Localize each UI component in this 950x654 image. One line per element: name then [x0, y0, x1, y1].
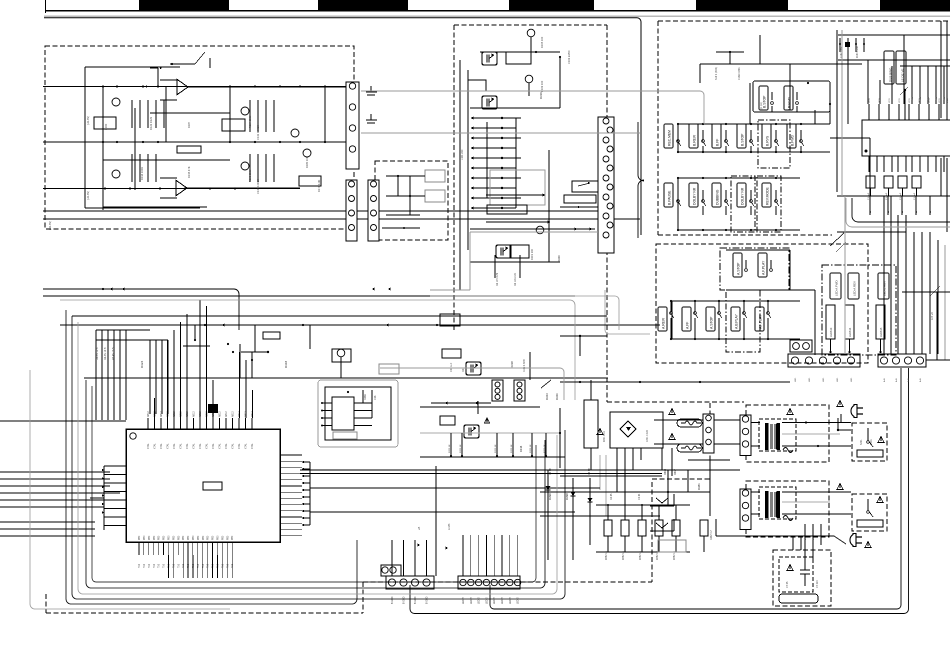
svg-text:B-GND: B-GND: [415, 596, 417, 604]
svg-text:LED B: LED B: [518, 597, 520, 604]
svg-text:C168 4.99K: C168 4.99K: [738, 67, 741, 80]
svg-text:PB0: PB0: [227, 535, 229, 540]
svg-text:TX0: TX0: [218, 563, 220, 568]
svg-text:Q1 (11): Q1 (11): [760, 102, 763, 110]
svg-text:D318: D318: [510, 361, 514, 368]
svg-text:(-21.6V): (-21.6V): [49, 221, 52, 230]
svg-text:TX0: TX0: [139, 563, 141, 568]
svg-text:AB12: AB12: [232, 411, 235, 417]
svg-text:TX0: TX0: [169, 563, 171, 568]
svg-text:B.STOP: B.STOP: [741, 133, 745, 146]
svg-text:R109 100: R109 100: [540, 80, 544, 92]
svg-text:A.B.PLAY: A.B.PLAY: [735, 313, 739, 329]
svg-text:PB0: PB0: [173, 535, 175, 540]
svg-text:AB12: AB12: [173, 411, 176, 417]
svg-text:TX0: TX0: [198, 563, 200, 568]
svg-text:XTAL: XTAL: [225, 443, 228, 449]
svg-text:R134 100K: R134 100K: [140, 167, 144, 180]
svg-text:D381: D381: [697, 483, 701, 490]
svg-text:B-GND: B-GND: [404, 596, 406, 604]
svg-text:R122 R123: R122 R123: [149, 116, 153, 130]
svg-text:LED B: LED B: [479, 597, 481, 604]
svg-text:AB12: AB12: [199, 411, 202, 417]
svg-text:R320 1K: R320 1K: [495, 444, 497, 453]
svg-text:PB0: PB0: [164, 535, 166, 540]
svg-text:A.MS: A.MS: [447, 523, 451, 530]
svg-text:LED613: LED613: [829, 327, 833, 337]
svg-text:REC.MEM: REC.MEM: [668, 130, 672, 146]
svg-text:R6 AN 10 B: R6 AN 10 B: [96, 347, 99, 360]
svg-text:VCO: VCO: [899, 98, 901, 103]
svg-text:TX0: TX0: [222, 563, 224, 568]
svg-text:R187: R187: [187, 121, 191, 128]
svg-text:PB0: PB0: [159, 535, 161, 540]
svg-text:LED: LED: [851, 377, 853, 382]
svg-text:TX0: TX0: [178, 563, 180, 568]
svg-text:R320 1K: R320 1K: [460, 444, 462, 453]
svg-text:A.REW: A.REW: [662, 317, 666, 329]
svg-text:D323: D323: [545, 393, 549, 400]
svg-text:C160: C160: [104, 123, 108, 130]
svg-text:D301 4.7A: D301 4.7A: [603, 431, 606, 442]
svg-text:VCO: VCO: [889, 98, 891, 103]
svg-text:R320 1K: R320 1K: [449, 444, 451, 453]
svg-text:C167 10uF: C167 10uF: [841, 46, 843, 58]
svg-text:R6 174 0.76: R6 174 0.76: [496, 272, 499, 286]
svg-text:LED A.REV: LED A.REV: [853, 281, 857, 296]
svg-text:PB0: PB0: [232, 535, 234, 540]
svg-text:S401: S401: [860, 439, 863, 445]
svg-text:XTAL: XTAL: [180, 443, 183, 449]
svg-text:TX0: TX0: [227, 563, 229, 568]
svg-text:C7 05: C7 05: [786, 581, 789, 588]
svg-text:LED: LED: [809, 377, 811, 382]
svg-text:R105 100: R105 100: [540, 36, 544, 48]
svg-text:AB12: AB12: [219, 411, 222, 417]
svg-text:LED B: LED B: [486, 597, 488, 604]
svg-text:LED B: LED B: [471, 597, 473, 604]
svg-text:B.RVS: B.RVS: [766, 135, 770, 146]
svg-text:R3 85: R3 85: [610, 493, 613, 500]
svg-text:R135 47K: R135 47K: [187, 166, 191, 178]
svg-text:TX0: TX0: [208, 563, 210, 568]
svg-text:PB0: PB0: [178, 535, 180, 540]
svg-text:A.FF: A.FF: [686, 322, 690, 329]
svg-text:R387 4.7: R387 4.7: [710, 530, 713, 540]
svg-text:PB0: PB0: [188, 535, 190, 540]
svg-text:R180 10K: R180 10K: [305, 156, 309, 168]
svg-text:R6 AN 10 B: R6 AN 10 B: [112, 347, 115, 360]
svg-text:PB0: PB0: [213, 535, 215, 540]
svg-text:XTAL: XTAL: [232, 443, 235, 449]
svg-text:B.FWD: B.FWD: [791, 135, 795, 146]
svg-text:D318: D318: [284, 360, 288, 368]
svg-text:XTAL: XTAL: [245, 443, 248, 449]
svg-text:LED615: LED615: [879, 327, 883, 337]
svg-text:A.B: A.B: [883, 378, 886, 382]
svg-text:TX0: TX0: [193, 563, 195, 568]
svg-text:XTAL: XTAL: [147, 443, 150, 449]
svg-text:XTAL: XTAL: [212, 443, 215, 449]
svg-text:A.STOP: A.STOP: [737, 262, 741, 275]
svg-text:PB0: PB0: [208, 535, 210, 540]
svg-text:R.05 0.72W: R.05 0.72W: [523, 359, 526, 372]
svg-text:LED B: LED B: [494, 597, 496, 604]
svg-text:C401: C401: [870, 439, 873, 445]
svg-text:AB12: AB12: [180, 411, 183, 417]
svg-text:LE DE VE: LE DE VE: [901, 68, 905, 82]
svg-text:D319: D319: [539, 92, 543, 99]
svg-text:XTAL: XTAL: [173, 443, 176, 449]
svg-text:XTAL: XTAL: [193, 443, 196, 449]
svg-text:XTAL: XTAL: [206, 443, 209, 449]
svg-text:C141 0.0056: C141 0.0056: [256, 125, 260, 140]
svg-text:A.B: A.B: [919, 378, 922, 382]
svg-text:C7 224: C7 224: [816, 580, 819, 588]
svg-text:A.B +B: A.B +B: [931, 312, 934, 320]
svg-text:D324: D324: [140, 360, 144, 368]
svg-text:+B: +B: [417, 526, 421, 530]
svg-text:(-21.6V): (-21.6V): [87, 116, 90, 125]
svg-text:R320 1K: R320 1K: [530, 444, 532, 453]
svg-text:VCO: VCO: [909, 98, 911, 103]
svg-text:TX0: TX0: [213, 563, 215, 568]
svg-text:(-21.6V): (-21.6V): [87, 191, 90, 200]
svg-text:D326: D326: [555, 393, 559, 400]
svg-text:A.F.PLAY: A.F.PLAY: [762, 260, 766, 275]
svg-text:AB12: AB12: [186, 411, 189, 417]
svg-text:R6 AN 10 B: R6 AN 10 B: [104, 347, 107, 360]
svg-text:LED B: LED B: [463, 597, 465, 604]
svg-text:R119 100: R119 100: [530, 248, 534, 260]
svg-text:R6 116 2.2K: R6 116 2.2K: [514, 272, 517, 286]
svg-text:AB12: AB12: [160, 411, 163, 417]
svg-text:VCO: VCO: [947, 98, 949, 103]
svg-text:R184 1186: R184 1186: [248, 115, 252, 128]
svg-text:LED B: LED B: [510, 597, 512, 604]
svg-text:LED614: LED614: [848, 327, 852, 337]
svg-text:PB0: PB0: [169, 535, 171, 540]
svg-text:D316: D316: [519, 445, 523, 452]
svg-text:TX0: TX0: [232, 563, 234, 568]
svg-text:B.STOP: B.STOP: [763, 95, 767, 108]
svg-text:TX0: TX0: [173, 563, 175, 568]
svg-text:PB0: PB0: [218, 535, 220, 540]
svg-text:LED: LED: [795, 377, 797, 382]
svg-text:TX0: TX0: [203, 563, 205, 568]
svg-text:B.PAUSE: B.PAUSE: [668, 190, 672, 205]
svg-text:DUB BING: DUB BING: [889, 67, 893, 82]
svg-text:R160 4.99K: R160 4.99K: [857, 45, 859, 58]
svg-text:PB0: PB0: [154, 535, 156, 540]
svg-text:LED B.REV: LED B.REV: [883, 281, 887, 296]
svg-text:R178 3.3K: R178 3.3K: [317, 179, 321, 192]
svg-text:PB0: PB0: [193, 535, 195, 540]
svg-text:D398: D398: [548, 493, 552, 500]
svg-text:XTAL: XTAL: [219, 443, 222, 449]
svg-text:C3 84: C3 84: [638, 493, 641, 500]
svg-text:C34 1uF: C34 1uF: [450, 362, 453, 372]
svg-text:LED: LED: [837, 377, 839, 382]
svg-text:B.FF: B.FF: [716, 139, 720, 146]
svg-text:D320: D320: [557, 255, 561, 262]
svg-text:DUBBING: DUBBING: [716, 189, 720, 205]
svg-text:TX0: TX0: [164, 563, 166, 568]
svg-text:XTAL: XTAL: [154, 443, 157, 449]
svg-text:D398: D398: [565, 493, 569, 500]
svg-text:TX0: TX0: [183, 563, 185, 568]
svg-text:TX0: TX0: [159, 563, 161, 568]
svg-text:PB0: PB0: [198, 535, 200, 540]
svg-text:R320 1K: R320 1K: [544, 444, 546, 453]
svg-text:B-GND: B-GND: [392, 596, 394, 604]
svg-text:DOLBY NR: DOLBY NR: [693, 187, 697, 205]
svg-text:REV.MODE: REV.MODE: [766, 186, 770, 205]
svg-text:A.STOP: A.STOP: [710, 316, 714, 329]
svg-text:PB0: PB0: [222, 535, 224, 540]
svg-text:C28: C28: [374, 395, 377, 400]
svg-text:TX0: TX0: [188, 563, 190, 568]
svg-text:R186 1186: R186 1186: [248, 169, 252, 182]
svg-text:XTAL: XTAL: [251, 443, 254, 449]
svg-text:B.REW: B.REW: [693, 134, 697, 146]
svg-text:C145 0.0056: C145 0.0056: [256, 179, 260, 194]
svg-text:PB0: PB0: [203, 535, 205, 540]
svg-text:XTAL: XTAL: [167, 443, 170, 449]
svg-text:XTAL: XTAL: [186, 443, 189, 449]
svg-text:R386: R386: [364, 394, 367, 400]
svg-text:TX0: TX0: [144, 563, 146, 568]
svg-text:TX0: TX0: [154, 563, 156, 568]
svg-text:D317: D317: [674, 468, 677, 475]
svg-text:PB0: PB0: [149, 535, 151, 540]
svg-text:LED B: LED B: [502, 597, 504, 604]
svg-text:TX0: TX0: [149, 563, 151, 568]
svg-text:C301 0.022: C301 0.022: [647, 429, 649, 442]
svg-text:LED: LED: [823, 377, 825, 382]
svg-text:4.7K: 4.7K: [788, 105, 791, 110]
svg-text:DOLBY NR: DOLBY NR: [741, 187, 745, 205]
svg-text:PB0: PB0: [183, 535, 185, 540]
svg-text:AB12: AB12: [193, 411, 196, 417]
svg-text:AB12: AB12: [225, 411, 228, 417]
svg-text:XTAL: XTAL: [160, 443, 163, 449]
svg-text:A.B: A.B: [895, 378, 898, 382]
svg-text:L101 220: L101 220: [461, 149, 464, 160]
svg-text:LED A.FWD: LED A.FWD: [835, 280, 839, 296]
svg-text:R320 1K: R320 1K: [511, 444, 513, 453]
svg-text:B-GND: B-GND: [427, 596, 429, 604]
svg-text:C103 22/50: C103 22/50: [567, 50, 571, 64]
svg-text:PB0: PB0: [139, 535, 141, 540]
svg-text:S19 2 (S4S): S19 2 (S4S): [715, 67, 718, 80]
svg-text:XTAL: XTAL: [199, 443, 202, 449]
svg-text:VCO: VCO: [869, 98, 871, 103]
svg-text:XTAL: XTAL: [238, 443, 241, 449]
svg-text:PB0: PB0: [144, 535, 146, 540]
svg-text:A.B: A.B: [907, 378, 910, 382]
svg-text:D318: D318: [664, 468, 667, 475]
